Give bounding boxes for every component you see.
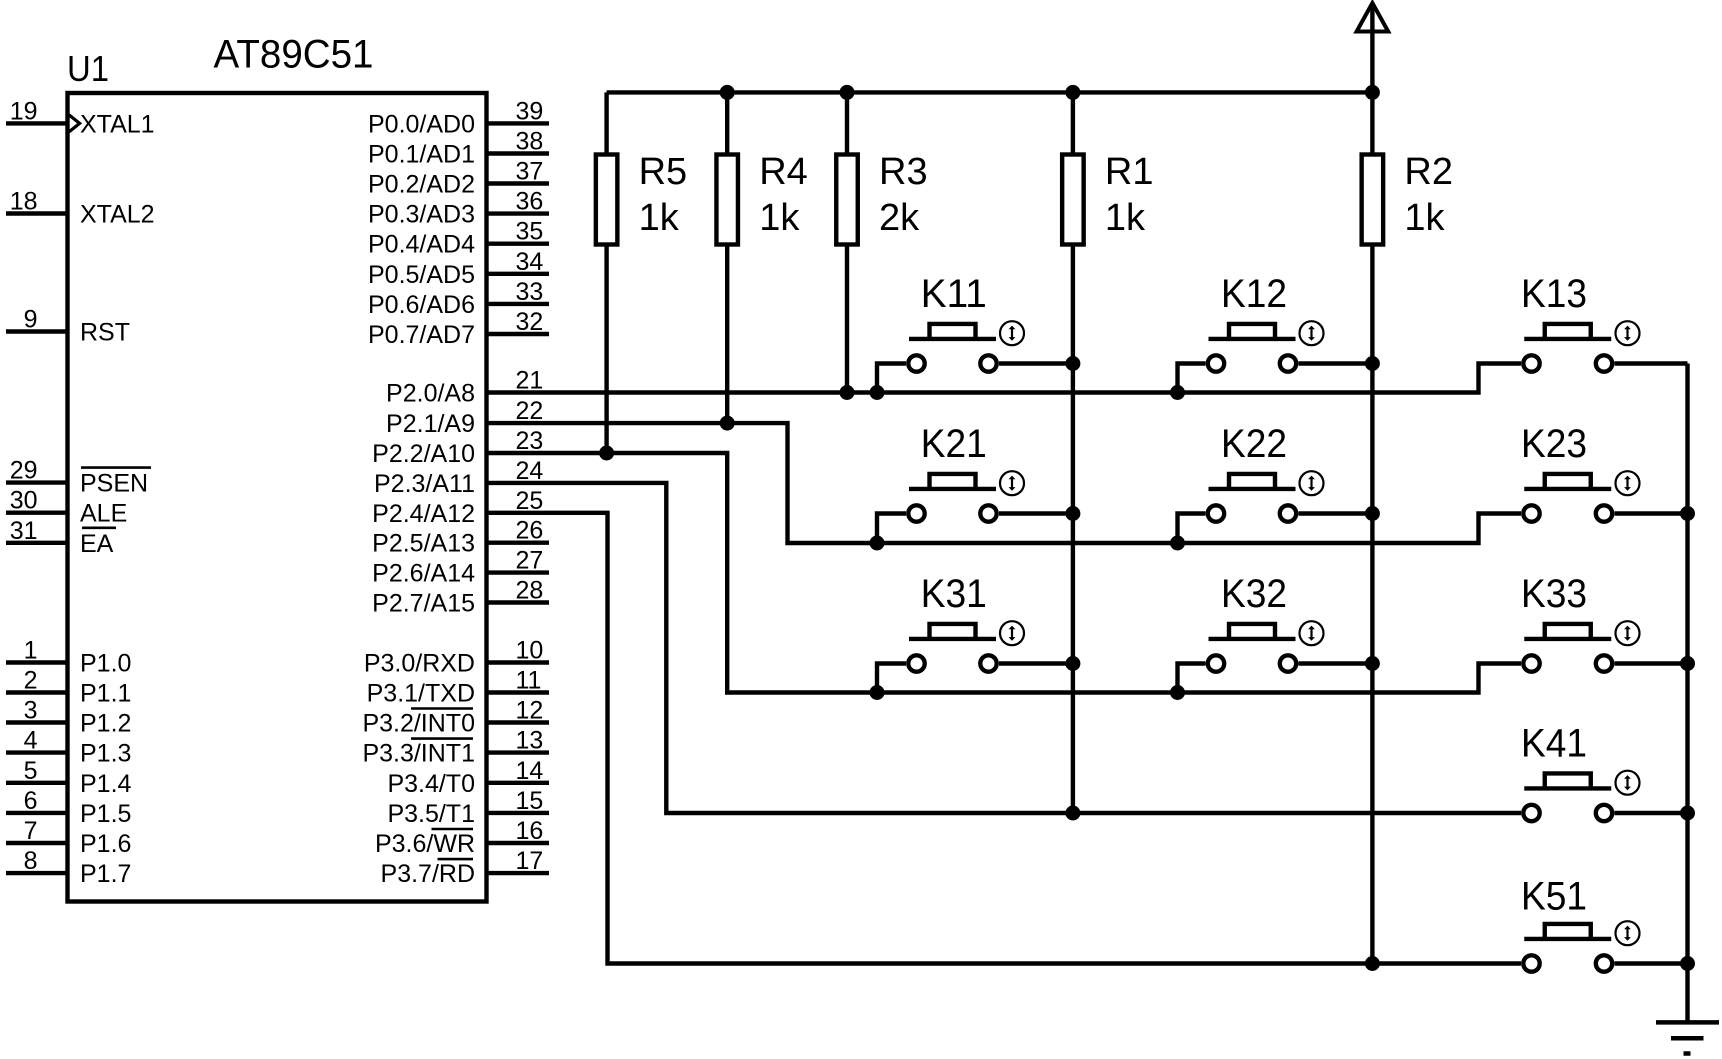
svg-text:1k: 1k — [1404, 197, 1445, 239]
VCC rail wire — [607, 90, 1373, 94]
pin 26 P2.5/A13 (right) — [372, 517, 549, 558]
pin 16 P3.6/WR (right) — [375, 817, 549, 858]
svg-text:K31: K31 — [921, 572, 987, 616]
svg-text:P1.4: P1.4 — [80, 770, 132, 798]
wire K22 right lead — [1299, 511, 1373, 515]
junction K22 left lead to row — [1170, 536, 1185, 551]
svg-text:P3.3/INT1: P3.3/INT1 — [362, 740, 475, 768]
svg-text:P2.5/A13: P2.5/A13 — [372, 530, 475, 558]
svg-text:P0.4/AD4: P0.4/AD4 — [368, 231, 475, 259]
svg-text:R2: R2 — [1404, 151, 1453, 193]
wire K11 left lead — [877, 364, 906, 393]
wire P2.4/A12 row 5 net — [487, 513, 1522, 964]
svg-text:P1.6: P1.6 — [80, 830, 131, 858]
svg-text:EA: EA — [80, 530, 114, 558]
svg-text:7: 7 — [24, 817, 38, 845]
wire P2.2/A10 row 3 net — [487, 453, 1522, 693]
junction K31 left lead to row — [870, 685, 885, 700]
pin 17 P3.7/RD (right) — [381, 847, 549, 888]
wire K11 right lead — [999, 361, 1073, 365]
svg-text:P3.0/RXD: P3.0/RXD — [364, 650, 475, 678]
wire P2.3/A11 row 4 net — [487, 483, 1522, 813]
pin 22 P2.1/A9 (right) — [386, 397, 543, 438]
pin 19 XTAL1 (left) — [6, 97, 155, 138]
svg-text:P0.5/AD5: P0.5/AD5 — [368, 261, 475, 289]
svg-text:P1.1: P1.1 — [80, 680, 131, 708]
svg-text:P3.2/INT0: P3.2/INT0 — [362, 710, 475, 738]
svg-text:P1.7: P1.7 — [80, 860, 131, 888]
svg-text:27: 27 — [516, 547, 544, 575]
pin 13 P3.3/INT1 (right) — [362, 727, 549, 768]
svg-text:P0.2/AD2: P0.2/AD2 — [368, 171, 475, 199]
svg-text:R4: R4 — [759, 151, 808, 193]
pin 18 XTAL2 (left) — [6, 188, 155, 229]
resistor R4 1k — [716, 92, 738, 423]
pin 38 P0.1/AD1 (right) — [368, 128, 549, 169]
pin 4 P1.3 (left) — [6, 727, 131, 768]
pin 29 PSEN (left) — [6, 457, 151, 498]
svg-text:AT89C51: AT89C51 — [214, 33, 374, 77]
IC U1 AT89C51 body — [68, 93, 487, 902]
svg-text:P2.4/A12: P2.4/A12 — [372, 500, 475, 528]
svg-text:1: 1 — [24, 637, 38, 665]
svg-text:16: 16 — [516, 817, 544, 845]
junction R3-row1 — [840, 385, 855, 400]
pushbutton K51 — [1523, 921, 1639, 972]
svg-text:K23: K23 — [1521, 422, 1587, 466]
pin 9 RST (left) — [6, 306, 130, 347]
pin 23 P2.2/A10 (right) — [372, 427, 543, 468]
svg-text:33: 33 — [516, 278, 544, 306]
svg-text:2k: 2k — [879, 197, 920, 239]
pin 39 P0.0/AD0 (right) — [368, 97, 549, 138]
resistor R3 2k — [836, 92, 858, 392]
svg-text:5: 5 — [24, 757, 38, 785]
svg-text:P2.7/A15: P2.7/A15 — [372, 590, 475, 618]
pin 37 P0.2/AD2 (right) — [368, 158, 549, 199]
pin 12 P3.2/INT0 (right) — [362, 697, 549, 738]
svg-text:ALE: ALE — [80, 500, 127, 528]
svg-text:PSEN: PSEN — [80, 470, 148, 498]
svg-text:K51: K51 — [1521, 875, 1587, 919]
junction R4-row2 stub — [720, 416, 735, 431]
pin 30 ALE (left) — [6, 487, 127, 528]
pin 24 P2.3/A11 (right) — [374, 457, 543, 498]
junction VCC rail — [1065, 85, 1080, 100]
svg-text:17: 17 — [516, 847, 544, 875]
pin 3 P1.2 (left) — [6, 697, 131, 738]
pushbutton K11 — [908, 321, 1024, 371]
pin 8 P1.7 (left) — [6, 847, 131, 888]
svg-text:K21: K21 — [921, 422, 987, 466]
pin 14 P3.4/T0 (right) — [387, 757, 549, 798]
svg-text:R1: R1 — [1105, 151, 1154, 193]
svg-text:9: 9 — [24, 306, 38, 334]
svg-text:P2.6/A14: P2.6/A14 — [372, 560, 475, 588]
svg-text:P2.3/A11: P2.3/A11 — [374, 470, 475, 498]
resistor R2 1k — [1362, 92, 1384, 963]
svg-text:2: 2 — [24, 667, 38, 695]
svg-text:36: 36 — [516, 188, 544, 216]
junction K11 right lead to column — [1065, 356, 1080, 371]
svg-text:18: 18 — [10, 188, 38, 216]
wire K32 right lead — [1299, 661, 1373, 665]
svg-text:RST: RST — [80, 319, 130, 347]
pin 35 P0.4/AD4 (right) — [368, 218, 549, 259]
wire K32 left lead — [1178, 664, 1206, 693]
pin 34 P0.5/AD5 (right) — [368, 248, 549, 289]
wire ground column — [1685, 364, 1689, 1023]
svg-text:3: 3 — [24, 697, 38, 725]
wire K23 right lead — [1615, 511, 1688, 515]
junction VCC rail — [720, 85, 735, 100]
ground — [1656, 1022, 1719, 1053]
svg-text:10: 10 — [516, 637, 544, 665]
svg-text:P1.3: P1.3 — [80, 740, 131, 768]
wire K21 right lead — [999, 511, 1073, 515]
svg-text:15: 15 — [516, 787, 544, 815]
svg-text:P2.0/A8: P2.0/A8 — [386, 380, 475, 408]
pin 25 P2.4/A12 (right) — [372, 487, 543, 528]
junction gnd-K33 — [1680, 656, 1695, 671]
pushbutton K32 — [1208, 621, 1324, 672]
wire K12 left lead — [1178, 364, 1206, 393]
wire K31 left lead — [877, 664, 906, 693]
svg-text:8: 8 — [24, 847, 38, 875]
svg-text:R3: R3 — [879, 151, 928, 193]
svg-text:32: 32 — [516, 308, 544, 336]
svg-text:P3.4/T0: P3.4/T0 — [387, 770, 475, 798]
junction R5-row3 stub — [599, 446, 614, 461]
pushbutton K33 — [1523, 621, 1639, 672]
wire K22 left lead — [1178, 514, 1206, 544]
junction R1-row4 — [1065, 806, 1080, 821]
svg-text:P1.5: P1.5 — [80, 800, 131, 828]
svg-text:K13: K13 — [1521, 272, 1587, 316]
pushbutton K22 — [1208, 471, 1324, 522]
pin 32 P0.7/AD7 (right) — [368, 308, 549, 349]
VCC power symbol (up arrow) — [1357, 3, 1389, 92]
pushbutton K31 — [908, 621, 1024, 672]
svg-text:P0.0/AD0: P0.0/AD0 — [368, 110, 475, 138]
junction K21 right lead to column — [1065, 506, 1080, 521]
svg-text:P3.1/TXD: P3.1/TXD — [367, 680, 475, 708]
svg-text:30: 30 — [10, 487, 38, 515]
pin 33 P0.6/AD6 (right) — [368, 278, 549, 319]
pushbutton K13 — [1523, 321, 1639, 371]
pin 27 P2.6/A14 (right) — [372, 547, 549, 588]
svg-text:K32: K32 — [1221, 572, 1287, 616]
junction K31 right lead to column — [1065, 656, 1080, 671]
junction VCC rail — [1365, 85, 1380, 100]
svg-text:P3.6/WR: P3.6/WR — [375, 830, 475, 858]
svg-text:P2.1/A9: P2.1/A9 — [386, 410, 475, 438]
svg-text:38: 38 — [516, 128, 544, 156]
svg-text:K41: K41 — [1521, 722, 1587, 766]
svg-text:19: 19 — [10, 97, 38, 125]
pin 7 P1.6 (left) — [6, 817, 131, 858]
junction gnd-K23 — [1680, 506, 1695, 521]
svg-text:K11: K11 — [921, 272, 987, 316]
wire K12 right lead — [1299, 361, 1373, 365]
svg-text:P1.2: P1.2 — [80, 710, 131, 738]
svg-text:P3.7/RD: P3.7/RD — [381, 860, 475, 888]
pin 28 P2.7/A15 (right) — [372, 577, 549, 618]
svg-text:P0.7/AD7: P0.7/AD7 — [368, 321, 475, 349]
junction K12 left lead to row — [1170, 385, 1185, 400]
pin 31 EA (left) — [6, 517, 116, 558]
junction K12 right lead to column — [1365, 356, 1380, 371]
svg-text:P0.3/AD3: P0.3/AD3 — [368, 201, 475, 229]
resistor R1 1k — [1062, 92, 1084, 813]
svg-text:26: 26 — [516, 517, 544, 545]
junction K11 left lead to row — [870, 385, 885, 400]
svg-text:11: 11 — [516, 667, 542, 695]
svg-text:P1.0: P1.0 — [80, 650, 131, 678]
junction K32 left lead to row — [1170, 685, 1185, 700]
svg-text:1k: 1k — [639, 197, 680, 239]
pin 21 P2.0/A8 (right) — [386, 367, 543, 408]
svg-text:1k: 1k — [759, 197, 800, 239]
svg-text:6: 6 — [24, 787, 38, 815]
pin 36 P0.3/AD3 (right) — [368, 188, 549, 229]
wire K41 right lead — [1615, 811, 1688, 815]
junction K32 right lead to column — [1365, 656, 1380, 671]
wire P2.0/A8 row 1 net — [487, 364, 1522, 393]
svg-text:K12: K12 — [1221, 272, 1287, 316]
pin 2 P1.1 (left) — [6, 667, 131, 708]
pin 5 P1.4 (left) — [6, 757, 132, 798]
wire K33 right lead — [1615, 661, 1688, 665]
svg-text:R5: R5 — [639, 151, 688, 193]
wire K31 right lead — [999, 661, 1073, 665]
svg-text:13: 13 — [516, 727, 544, 755]
svg-text:4: 4 — [24, 727, 38, 755]
svg-text:39: 39 — [516, 97, 544, 125]
pin 1 P1.0 (left) — [6, 637, 131, 678]
junction gnd-K51 — [1680, 956, 1695, 971]
pushbutton K23 — [1523, 471, 1639, 522]
junction K21 left lead to row — [870, 536, 885, 551]
svg-text:K33: K33 — [1521, 572, 1587, 616]
svg-text:XTAL1: XTAL1 — [80, 110, 155, 138]
pin 15 P3.5/T1 (right) — [387, 787, 549, 828]
svg-text:12: 12 — [516, 697, 544, 725]
resistor R5 1k — [596, 92, 618, 453]
svg-text:XTAL2: XTAL2 — [80, 201, 155, 229]
svg-text:P2.2/A10: P2.2/A10 — [372, 440, 475, 468]
wire P2.1/A9 row 2 net — [487, 423, 1522, 543]
svg-text:31: 31 — [10, 517, 38, 545]
svg-text:P3.5/T1: P3.5/T1 — [387, 800, 475, 828]
svg-text:U1: U1 — [67, 48, 109, 89]
svg-text:P0.6/AD6: P0.6/AD6 — [368, 291, 475, 319]
svg-text:37: 37 — [516, 158, 544, 186]
wire K21 left lead — [877, 514, 906, 544]
pin 11 P3.1/TXD (right) — [367, 667, 549, 708]
junction K22 right lead to column — [1365, 506, 1380, 521]
svg-text:29: 29 — [10, 457, 38, 485]
svg-text:14: 14 — [516, 757, 544, 785]
wire K51 right lead — [1615, 961, 1688, 965]
wire K13 right lead — [1615, 361, 1688, 365]
svg-text:35: 35 — [516, 218, 544, 246]
svg-text:P0.1/AD1: P0.1/AD1 — [368, 141, 475, 169]
junction VCC rail — [840, 85, 855, 100]
svg-text:1k: 1k — [1105, 197, 1146, 239]
pin 6 P1.5 (left) — [6, 787, 131, 828]
pin 10 P3.0/RXD (right) — [364, 637, 549, 678]
svg-text:28: 28 — [516, 577, 544, 605]
pushbutton K21 — [908, 471, 1024, 522]
junction gnd-K41 — [1680, 806, 1695, 821]
pushbutton K12 — [1208, 321, 1324, 371]
svg-text:K22: K22 — [1221, 422, 1287, 466]
svg-text:34: 34 — [516, 248, 544, 276]
pushbutton K41 — [1523, 771, 1639, 822]
junction R2-row5 — [1365, 956, 1380, 971]
